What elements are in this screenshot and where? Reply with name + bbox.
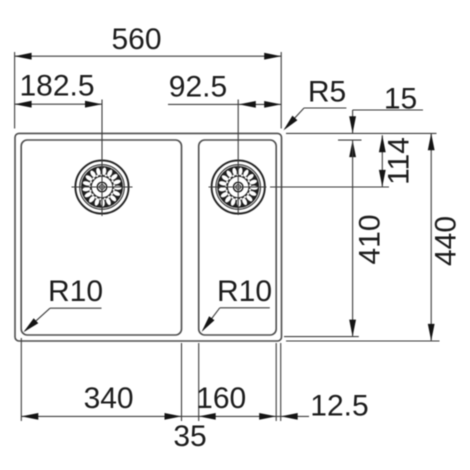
dimension 114 — [381, 135, 383, 187]
dimension 182.5 — [15, 103, 102, 105]
svg-text:182.5: 182.5 — [19, 70, 94, 103]
svg-text:560: 560 — [111, 23, 161, 56]
svg-text:340: 340 — [84, 382, 134, 415]
svg-text:R10: R10 — [217, 275, 272, 308]
svg-text:440: 440 — [430, 216, 463, 266]
dimension 560 — [15, 52, 282, 129]
svg-text:15: 15 — [384, 83, 417, 116]
bottom dimensions 340 / 35 / 160 / 12.5 — [21, 338, 309, 421]
svg-text:160: 160 — [196, 382, 246, 415]
left bowl — [21, 140, 181, 335]
svg-text:R10: R10 — [48, 275, 103, 308]
label R5 with leader — [285, 108, 346, 129]
dimension 440 — [430, 133, 432, 341]
right drain — [212, 160, 265, 213]
dimension 92.5 — [168, 103, 281, 105]
right side extension lines — [270, 133, 440, 341]
svg-text:12.5: 12.5 — [310, 390, 368, 423]
label R10 left with leader — [25, 308, 102, 331]
right bowl — [199, 140, 277, 335]
dimension 410 — [352, 140, 354, 337]
svg-text:92.5: 92.5 — [169, 71, 227, 104]
label R10 right with leader — [203, 308, 270, 330]
left drain centerlines — [72, 100, 133, 217]
svg-text:410: 410 — [354, 214, 387, 264]
svg-text:R5: R5 — [308, 76, 346, 109]
svg-text:35: 35 — [173, 420, 206, 453]
svg-text:114: 114 — [383, 137, 416, 185]
right drain centerlines — [209, 100, 267, 216]
outer rim — [15, 133, 282, 341]
left drain — [75, 160, 128, 213]
dimension 15 — [353, 110, 423, 133]
